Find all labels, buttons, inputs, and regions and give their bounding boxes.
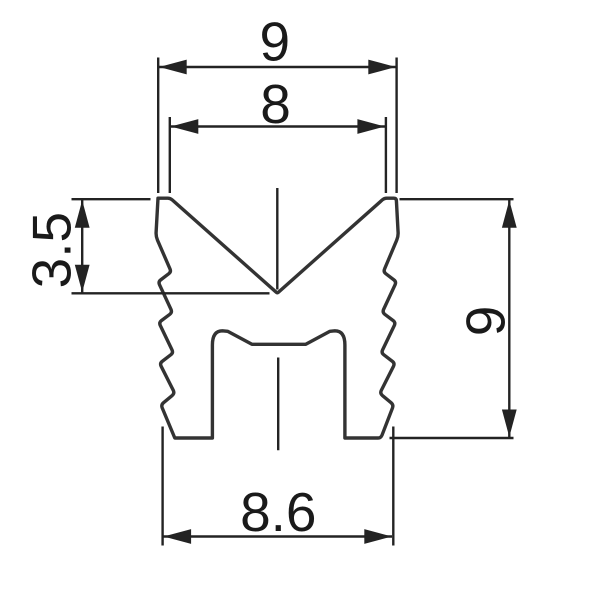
dim 8: arrow right (357, 119, 385, 134)
centerline upper (through V notch) (276, 188, 278, 290)
dim 9 right: arrow up (502, 200, 517, 228)
dim 3.5: arrow down (75, 265, 90, 293)
dim 8.6: extension line left (161, 427, 163, 546)
centerline lower (through channel) (277, 358, 279, 451)
dim 3.5: extension line bottom (72, 292, 270, 294)
dim 9 top: arrow left (159, 60, 187, 75)
dim 8.6: dimension line (163, 535, 392, 537)
dim 9 top: extension line left (157, 58, 159, 194)
dim 8: arrow left (171, 119, 199, 134)
dim 8: dimension line (171, 125, 386, 127)
dim 8.6: arrow right (364, 529, 392, 544)
gasket profile outline (156, 198, 398, 438)
svg-text:3.5: 3.5 (21, 212, 83, 288)
svg-text:9: 9 (260, 11, 291, 73)
dim 8.6: extension line right (392, 427, 394, 546)
dim 9 right: dimension line (508, 200, 510, 437)
dim 9 right: extension line bottom (390, 437, 514, 439)
dim 3.5: arrow up (75, 200, 90, 228)
dim 9 top: dimension line (159, 66, 396, 68)
dim 3.5: extension line top (72, 198, 151, 200)
dim 8: extension line right (385, 117, 387, 193)
dim 9 right: extension line top (400, 198, 514, 200)
svg-text:8: 8 (260, 73, 291, 135)
dim 3.5: dimension line (81, 200, 83, 293)
dim 8: extension line left (169, 117, 171, 193)
dim 9 top: extension line right (395, 58, 397, 194)
svg-text:8.6: 8.6 (240, 481, 316, 543)
dim 8.6: arrow left (164, 529, 192, 544)
dim 9 right: arrow down (502, 410, 517, 438)
dim 9 top: arrow right (368, 60, 396, 75)
svg-text:9: 9 (455, 306, 517, 337)
